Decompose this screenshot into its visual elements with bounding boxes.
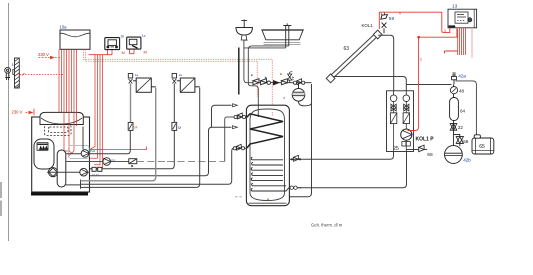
circuit 1 supply pipe (130, 84, 132, 123)
circuit 1 radiator (133, 78, 156, 92)
washbasin (236, 20, 252, 41)
red wire collector sensor to controller 13 (379, 12, 450, 32)
hydraulic header (57, 150, 66, 187)
pipe dome to pump1 (82, 127, 84, 150)
red wire bundle controller 13 (458, 28, 466, 55)
svg-text:1b: 1b (120, 34, 124, 38)
solar pump KOL1 P (401, 129, 412, 140)
controller 13 (448, 9, 477, 28)
basin drain pipe (238, 48, 240, 95)
red wires down to pump group (85, 55, 147, 169)
svg-text:63: 63 (344, 46, 350, 52)
svg-text:2a: 2a (179, 73, 183, 77)
svg-text:230 V: 230 V (12, 110, 23, 115)
svg-text:M: M (122, 50, 125, 55)
gray module box around pump1 (69, 146, 90, 159)
border frame left gray line (8, 3, 10, 241)
riser to tank port1 (225, 117, 235, 162)
svg-text:1a: 1a (135, 73, 139, 77)
solar sensor wire end upper (271, 112, 273, 117)
svg-text:59: 59 (389, 16, 395, 22)
burner with flames (37, 143, 48, 151)
expansion vessel 42b (445, 146, 463, 164)
circuit 1 motor valve (128, 122, 133, 130)
drain valve 58 (454, 134, 464, 146)
pipe tank to solar station (lower) (297, 152, 406, 188)
boiler return line through pump2 (47, 171, 90, 173)
air vent 42a (452, 73, 457, 85)
collecting canister 65 (472, 135, 494, 154)
svg-text:64: 64 (460, 109, 466, 114)
red wire pair to DHW sensors (dashed) (84, 50, 273, 116)
page edge gray segments (0, 182, 2, 216)
svg-text:PS: PS (112, 158, 116, 162)
orange dot at tank bottom (267, 199, 269, 201)
supply line to circuit 2 (90, 131, 174, 169)
red wire controller 13 to solar pump (408, 28, 458, 131)
svg-text:M: M (144, 49, 147, 54)
station right pipe fittings (403, 91, 410, 151)
pump P2 (80, 168, 88, 176)
controller 10a (60, 30, 90, 49)
red wires through boiler top (64, 112, 77, 157)
svg-text:42a: 42a (458, 73, 466, 78)
tank port 1 valve (234, 113, 247, 119)
boiler base bar (31, 192, 88, 195)
return from circuit 2 (81, 88, 200, 188)
svg-text:42b: 42b (463, 158, 471, 163)
fill valve 68 (406, 145, 427, 152)
svg-text:1c: 1c (142, 34, 146, 38)
micro marks on valve row (265, 77, 267, 79)
svg-text:10a: 10a (60, 25, 68, 30)
DHW valve row (252, 79, 312, 85)
DHW pipe into tank (257, 105, 259, 117)
riser pipe (453, 85, 455, 146)
tank port 2 valve (233, 144, 246, 150)
room controller 10b-2 (127, 37, 141, 49)
row valve with unions (293, 79, 304, 85)
dashed stub under tank (235, 196, 242, 198)
tank right port upper (to solar station) (289, 155, 302, 161)
svg-text:230 V: 230 V (38, 52, 49, 57)
DHW distribution double pipe (244, 46, 289, 117)
room controller 10b-1 (105, 38, 120, 50)
pressure gauge 48 (450, 87, 457, 94)
circuit 2 air vent (172, 74, 176, 84)
flow meter under pump (402, 142, 410, 147)
line header to storage loading pump (66, 161, 137, 163)
collector sensor 59 (381, 13, 388, 34)
svg-text:M: M (134, 125, 137, 129)
combustion vessel (34, 139, 54, 169)
storage loading pump PS (103, 158, 111, 166)
svg-text:65: 65 (479, 144, 485, 150)
svg-text:58: 58 (463, 139, 469, 144)
pipe tank to solar station (upper) (302, 152, 393, 160)
svg-text:3: 3 (444, 29, 446, 33)
air separator 64 (450, 98, 459, 121)
open arrow to tank upper (233, 104, 238, 107)
svg-text:M: M (178, 126, 181, 130)
open arrow to tank lower (233, 126, 238, 129)
boiler top dome (40, 112, 83, 124)
boiler outer body (32, 117, 90, 192)
circuit 2 supply pipe (173, 84, 175, 123)
valve 32 (450, 124, 457, 131)
wire outdoor sensor to controller (red dashed) (20, 74, 64, 76)
svg-text:KOL1: KOL1 (362, 23, 374, 28)
cold water pipe down to valve row (244, 40, 252, 82)
svg-text:48: 48 (459, 89, 465, 94)
safety valve on row (288, 71, 294, 82)
dashed gray line to tank port 1 (137, 161, 225, 163)
svg-text:PH1: PH1 (90, 149, 96, 153)
tank inner vessel (249, 109, 287, 203)
red wire bundle controller 10a to boiler (59, 50, 77, 113)
pump P1 (81, 150, 89, 158)
line to tank arrows (90, 105, 232, 175)
circuit 1 air vent (128, 74, 132, 84)
return via tank port 2 (81, 148, 234, 184)
bathtub (261, 29, 303, 31)
tank right port lower (289, 186, 301, 189)
expansion line to 42a group (406, 84, 451, 86)
return collector bar (66, 180, 81, 189)
storage tank casing (246, 105, 289, 206)
solar station box (387, 91, 414, 152)
circuit 2 radiator (177, 78, 200, 92)
safety blow-off line to canister (456, 81, 477, 135)
three way valve (diamond) (48, 168, 57, 177)
svg-text:Geh. therm. dl m: Geh. therm. dl m (311, 223, 343, 228)
wall (hatched) (13, 58, 20, 88)
solar return pipe station to collector (333, 77, 406, 92)
check valve symbol (129, 159, 137, 167)
light red stray wire (471, 28, 473, 58)
svg-text:25: 25 (393, 146, 399, 152)
svg-text:13: 13 (452, 4, 458, 10)
cold feed pipe to tank bottom (289, 84, 312, 197)
outdoor temperature sensor (5, 67, 11, 80)
DHW circulation pump (292, 83, 311, 106)
actuator terminal boxes (92, 167, 102, 171)
solar collector (326, 30, 382, 83)
wire rail to room units (red) (89, 49, 135, 54)
solar coil (tight spiral) (251, 157, 289, 191)
circuit 2 motor valve (172, 122, 177, 130)
svg-text:32: 32 (458, 125, 464, 130)
svg-text:3: 3 (420, 58, 422, 62)
return from circuit 1 (gray) (81, 88, 156, 181)
svg-text:68: 68 (427, 152, 433, 158)
control panel (dashed) (45, 125, 72, 136)
solar flow pipe collector to station (378, 35, 394, 91)
svg-text:KOL1 P: KOL1 P (416, 136, 435, 142)
heating coil (zigzag) (247, 114, 283, 148)
supply line to circuit 1 (66, 131, 131, 154)
station left pipe fittings (390, 91, 397, 151)
